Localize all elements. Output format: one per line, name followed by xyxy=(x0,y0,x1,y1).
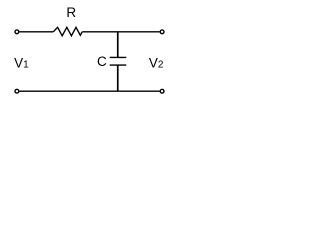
resistor R xyxy=(53,27,82,36)
svg-text:R: R xyxy=(66,5,76,20)
svg-text:V2: V2 xyxy=(149,56,164,71)
svg-text:V1: V1 xyxy=(14,56,29,71)
wire: bottom rail xyxy=(20,90,160,92)
terminal: V2 - (bottom-right open circle) xyxy=(160,89,164,93)
svg-text:C: C xyxy=(97,54,107,69)
wire: capacitor bottom lead (junction with bottom rail) xyxy=(117,65,119,91)
wire: capacitor top lead (junction with top rail) xyxy=(117,32,119,58)
wire: top rail, resistor to V2 terminal xyxy=(82,31,159,33)
terminal: V2 + (top-right open circle) xyxy=(160,30,164,34)
terminal: V1 + (top-left open circle) xyxy=(15,30,19,34)
wire: top rail, terminal to resistor xyxy=(20,31,54,33)
capacitor C xyxy=(110,57,127,65)
terminal: V1 - (bottom-left open circle) xyxy=(15,89,19,93)
